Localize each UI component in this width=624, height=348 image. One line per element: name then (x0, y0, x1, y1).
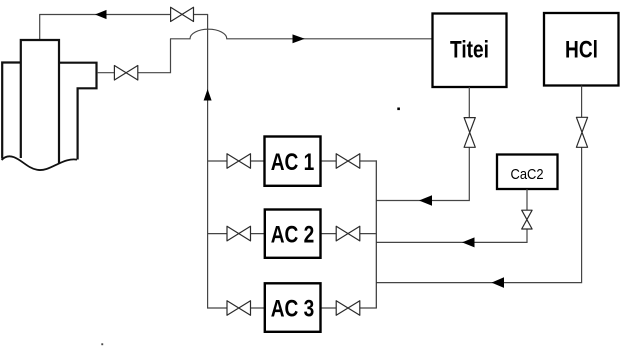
svg-text:HCl: HCl (565, 35, 598, 63)
valve V4 CaC2 feed (vertical) (522, 210, 532, 229)
wire: tank top riser (39, 15, 41, 41)
arrow: flow up manifold (204, 89, 212, 101)
tank T1 outer shell left (2, 63, 21, 159)
valve V5 HCl feed (vertical) (576, 117, 587, 147)
wire: collector line (375, 160, 377, 308)
arrow: flow right to Titei (293, 34, 305, 43)
box AC 1 (265, 137, 321, 186)
box AC 2 (265, 210, 321, 258)
tank T1 outer shell right outlet (59, 63, 97, 160)
valve V6 AC1 inlet (227, 154, 251, 169)
arrow: flow left from HCl (492, 277, 505, 288)
valve V7 AC1 outlet (336, 154, 360, 169)
valve V1 top gas line (171, 7, 194, 21)
wire: top gas line to tank (39, 14, 208, 16)
arrow: flow left from CaC2 (462, 237, 475, 247)
valve V10 AC3 inlet (227, 301, 251, 316)
valve V9 AC2 outlet (336, 226, 360, 241)
arrow: flow left from Titei (419, 195, 432, 206)
svg-text:AC 1: AC 1 (271, 147, 315, 175)
wire: tank outlet line (97, 39, 171, 73)
tank T1 inner column (21, 40, 59, 164)
wire: AC2 branch (208, 233, 377, 235)
valve V11 AC3 outlet (336, 301, 360, 316)
wire: line to Titei with bridge hop (170, 29, 433, 39)
svg-text:CaC2: CaC2 (510, 165, 543, 182)
svg-text:Titei: Titei (450, 35, 489, 63)
node: stray dot near Titei (397, 108, 400, 111)
box CaC2 (497, 155, 558, 190)
valve V3 Titei feed (vertical) (464, 118, 475, 148)
tank T1 wavy break line (2, 156, 77, 170)
box HCl (544, 13, 619, 86)
wire: AC3 branch (251, 307, 377, 309)
box Titei (433, 14, 507, 88)
valve V2 tank outlet (114, 66, 137, 81)
wire: AC1 branch (208, 160, 377, 162)
arrow: flow left into tank top (95, 10, 107, 19)
valve V8 AC2 inlet (227, 226, 251, 241)
svg-text:AC 2: AC 2 (271, 220, 315, 248)
wire: HCl feed drop (376, 86, 581, 283)
wire: Titei feed drop (376, 87, 469, 201)
svg-text:AC 3: AC 3 (271, 294, 315, 322)
box AC 3 (265, 283, 321, 332)
wire: gas manifold riser (208, 15, 227, 309)
wire: CaC2 feed drop (376, 189, 527, 242)
node: stray dot bottom left (101, 343, 103, 345)
